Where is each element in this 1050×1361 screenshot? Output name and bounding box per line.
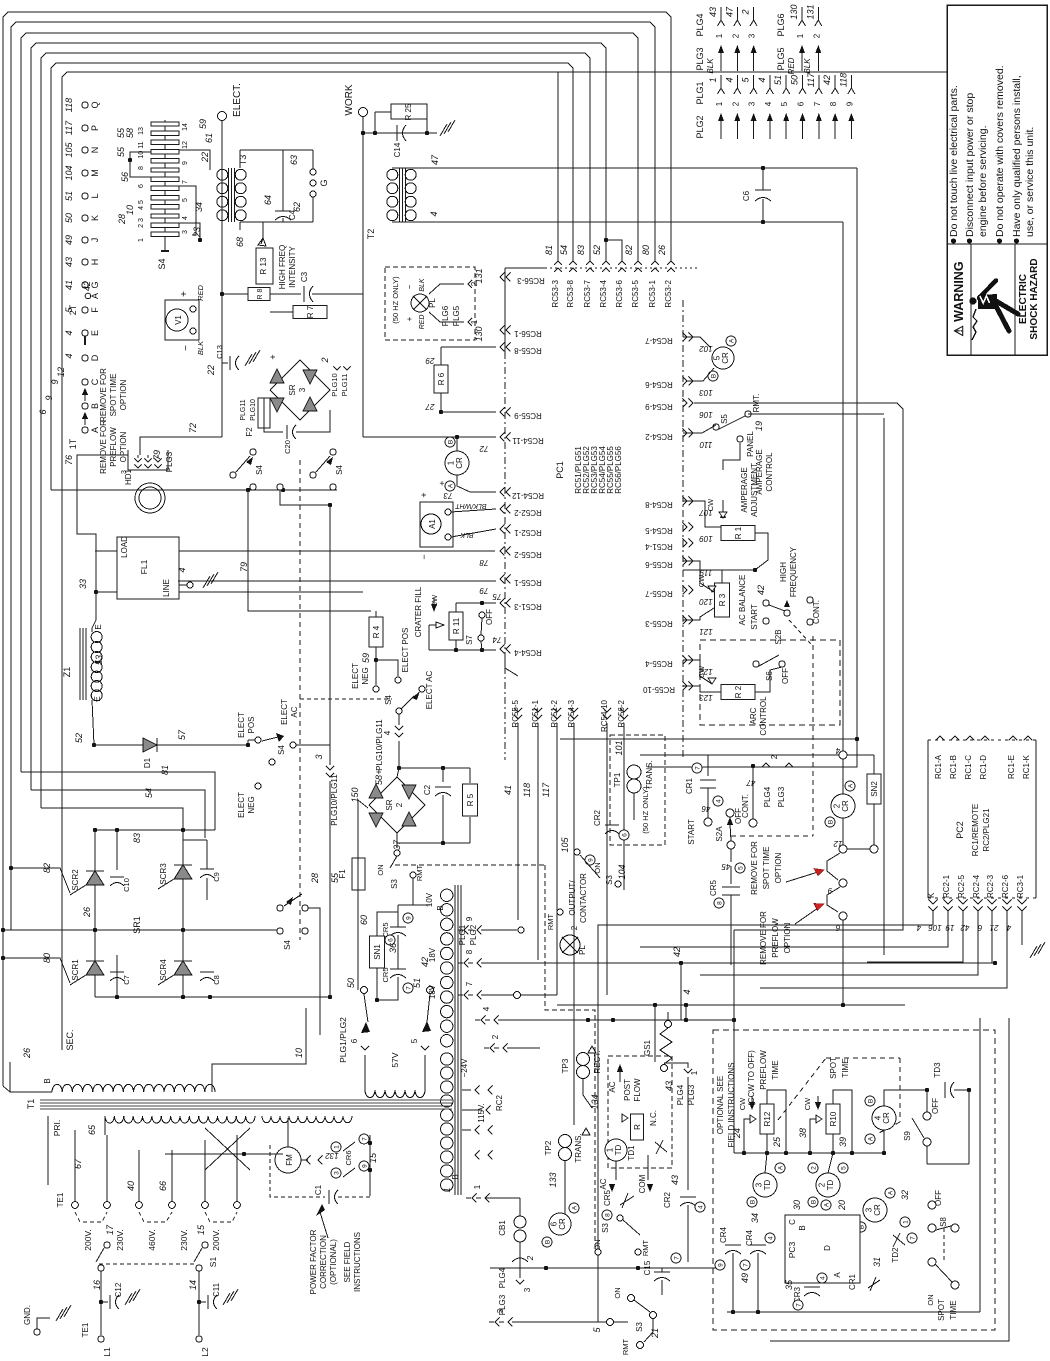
svg-text:20: 20 (837, 1200, 847, 1211)
svg-text:L1: L1 (102, 1347, 112, 1356)
svg-text:8: 8 (716, 901, 723, 905)
svg-text:3: 3 (298, 387, 307, 392)
svg-text:OFF: OFF (934, 1190, 943, 1206)
svg-text:use, or service this unit.: use, or service this unit. (1024, 127, 1036, 237)
svg-text:TE1: TE1 (56, 1192, 65, 1207)
svg-text:RC55-8: RC55-8 (514, 346, 542, 355)
svg-text:1: 1 (715, 33, 724, 38)
svg-text:47: 47 (746, 778, 755, 787)
svg-text:CR: CR (873, 1204, 882, 1216)
svg-text:118: 118 (838, 73, 848, 87)
svg-text:SCR4: SCR4 (159, 959, 168, 981)
svg-text:7: 7 (182, 180, 189, 184)
svg-text:21: 21 (990, 923, 1000, 932)
svg-text:45: 45 (721, 862, 730, 871)
svg-text:OUTPUT/: OUTPUT/ (568, 880, 577, 916)
svg-text:CR: CR (882, 1112, 891, 1124)
svg-text:RC56-1: RC56-1 (514, 329, 542, 338)
svg-text:3: 3 (748, 33, 757, 38)
svg-text:K: K (927, 892, 936, 898)
svg-text:18V: 18V (428, 984, 437, 999)
svg-text:BLK: BLK (196, 340, 205, 355)
svg-text:10 11: 10 11 (138, 141, 145, 158)
svg-text:PLG5: PLG5 (776, 47, 786, 70)
svg-text:R 25: R 25 (404, 103, 413, 120)
svg-text:T1: T1 (26, 1099, 36, 1110)
svg-text:J: J (90, 238, 100, 243)
svg-text:BLK: BLK (419, 278, 426, 292)
svg-text:(50 HZ ONLY): (50 HZ ONLY) (391, 276, 400, 324)
svg-text:CR1: CR1 (848, 1273, 857, 1290)
svg-text:E: E (93, 696, 102, 701)
svg-text:1: 1 (902, 1220, 909, 1224)
svg-text:+: + (268, 354, 278, 359)
svg-text:S2A: S2A (715, 826, 724, 842)
svg-text:⚠ WARNING: ⚠ WARNING (952, 261, 966, 336)
svg-text:83: 83 (132, 833, 142, 843)
svg-text:80: 80 (42, 953, 52, 963)
svg-text:B: B (447, 440, 454, 444)
svg-text:B: B (451, 1174, 460, 1179)
svg-text:B: B (710, 374, 717, 378)
svg-text:RC55-2: RC55-2 (514, 550, 542, 559)
svg-text:POS: POS (247, 717, 256, 734)
svg-text:CR5: CR5 (381, 967, 390, 982)
svg-text:REMOVE FOR: REMOVE FOR (750, 841, 759, 895)
svg-text:1: 1 (715, 101, 724, 106)
svg-text:72: 72 (188, 423, 198, 433)
svg-text:S3: S3 (601, 1223, 610, 1233)
svg-text:56: 56 (120, 172, 130, 182)
svg-text:66: 66 (158, 1181, 168, 1191)
svg-text:Z1: Z1 (62, 667, 72, 678)
svg-text:PLG2: PLG2 (695, 115, 705, 138)
svg-text:2: 2 (812, 33, 821, 38)
svg-text:+: + (179, 291, 190, 297)
svg-text:B: B (749, 1200, 756, 1204)
svg-text:V1: V1 (174, 315, 183, 325)
svg-text:2: 2 (320, 357, 330, 363)
svg-text:50: 50 (346, 978, 356, 988)
svg-text:PLG10/PLG11: PLG10/PLG11 (330, 774, 339, 826)
svg-text:RMT: RMT (641, 1239, 650, 1256)
svg-text:PLG5: PLG5 (452, 305, 461, 326)
svg-text:C11: C11 (212, 1282, 221, 1297)
svg-text:131: 131 (474, 268, 484, 283)
svg-text:42: 42 (756, 585, 766, 595)
svg-text:RC1-A: RC1-A (934, 754, 943, 779)
svg-text:4: 4 (383, 730, 392, 735)
svg-text:RC54-11: RC54-11 (512, 436, 544, 445)
svg-text:A: A (823, 1202, 830, 1207)
svg-text:BLK/WHT: BLK/WHT (455, 502, 487, 509)
svg-text:SR: SR (288, 384, 297, 395)
svg-text:1: 1 (605, 1147, 614, 1152)
svg-text:27: 27 (425, 402, 435, 411)
svg-text:POWER FACTOR: POWER FACTOR (309, 1229, 318, 1294)
svg-text:55: 55 (116, 127, 126, 138)
svg-text:RC51-4: RC51-4 (645, 542, 673, 551)
svg-text:SEE FIELD: SEE FIELD (343, 1241, 352, 1282)
svg-text:7: 7 (361, 1137, 368, 1141)
svg-text:S4: S4 (335, 465, 344, 475)
svg-text:PL: PL (428, 298, 437, 308)
svg-text:79: 79 (152, 450, 162, 460)
svg-text:C4: C4 (288, 209, 297, 220)
svg-text:REMOVE FOR: REMOVE FOR (759, 911, 768, 965)
svg-text:43: 43 (64, 257, 74, 267)
svg-text:PLG3: PLG3 (165, 451, 174, 472)
svg-text:+: + (374, 769, 384, 774)
svg-text:RC2-4: RC2-4 (972, 874, 981, 898)
svg-text:+: + (405, 316, 414, 321)
svg-text:Disconnect input power or stop: Disconnect input power or stop (964, 93, 976, 237)
svg-text:C15: C15 (643, 1260, 652, 1275)
svg-text:A: A (867, 1136, 874, 1141)
svg-text:S4: S4 (255, 465, 264, 475)
svg-text:OPTIONAL SEE: OPTIONAL SEE (716, 1076, 725, 1134)
svg-text:CR: CR (558, 1218, 567, 1230)
svg-text:TIME: TIME (771, 1060, 780, 1079)
svg-text:RC1-C: RC1-C (964, 755, 973, 780)
svg-text:A: A (833, 1272, 842, 1278)
svg-text:RC54-3: RC54-3 (567, 699, 576, 727)
svg-text:49: 49 (64, 235, 74, 245)
svg-text:120: 120 (699, 597, 713, 606)
svg-text:RC53-8: RC53-8 (566, 279, 575, 307)
svg-text:6: 6 (797, 101, 806, 106)
svg-text:RED: RED (787, 57, 796, 74)
svg-text:B: B (436, 905, 445, 910)
svg-text:2: 2 (770, 754, 779, 759)
svg-text:B: B (798, 1225, 807, 1230)
svg-text:C6: C6 (742, 190, 751, 201)
svg-text:S7: S7 (465, 635, 474, 645)
svg-text:4: 4 (715, 799, 722, 803)
svg-text:42: 42 (82, 281, 92, 291)
svg-text:C: C (788, 1219, 797, 1225)
svg-text:S3: S3 (635, 1322, 644, 1332)
svg-text:42: 42 (420, 957, 430, 967)
svg-text:RC55-5: RC55-5 (511, 699, 520, 727)
svg-text:B: B (544, 1240, 551, 1244)
svg-text:R 3: R 3 (718, 593, 727, 606)
svg-text:72: 72 (479, 444, 488, 453)
svg-text:3: 3 (748, 101, 757, 106)
svg-text:4: 4 (64, 353, 74, 358)
svg-text:NEG: NEG (247, 796, 256, 813)
svg-text:REMOVE FOR: REMOVE FOR (99, 368, 108, 422)
svg-text:CRATER FILL: CRATER FILL (414, 586, 423, 637)
svg-text:7: 7 (813, 101, 822, 106)
svg-text:105: 105 (64, 142, 74, 158)
svg-text:51: 51 (64, 191, 74, 201)
svg-text:S5: S5 (720, 414, 729, 424)
svg-text:10: 10 (125, 205, 135, 215)
svg-text:S4: S4 (277, 745, 286, 755)
svg-text:CR: CR (721, 352, 730, 364)
svg-text:RC54-8: RC54-8 (645, 500, 673, 509)
svg-text:76: 76 (64, 455, 74, 465)
svg-text:RC56/PLG56: RC56/PLG56 (614, 446, 623, 494)
svg-text:5: 5 (840, 1166, 847, 1170)
svg-text:OPTION: OPTION (119, 431, 128, 462)
svg-text:LOAD: LOAD (120, 536, 129, 558)
svg-text:7: 7 (465, 981, 474, 986)
svg-text:PLG4: PLG4 (498, 1267, 507, 1288)
svg-text:103: 103 (699, 388, 713, 397)
svg-text:25: 25 (772, 1136, 782, 1148)
svg-text:PANEL: PANEL (746, 431, 755, 457)
svg-text:4 5: 4 5 (138, 200, 145, 210)
svg-text:4: 4 (764, 101, 773, 106)
svg-text:RC1/REMOTE: RC1/REMOTE (971, 804, 980, 856)
svg-text:75: 75 (492, 592, 501, 601)
svg-text:110: 110 (699, 440, 712, 449)
svg-text:26: 26 (657, 245, 667, 256)
svg-text:41: 41 (503, 785, 513, 795)
svg-text:R 6: R 6 (437, 372, 446, 385)
svg-text:M: M (90, 169, 100, 177)
svg-text:1: 1 (138, 238, 145, 242)
svg-text:RC55-7: RC55-7 (645, 589, 673, 598)
svg-text:RC52-2: RC52-2 (514, 508, 542, 517)
svg-text:RC54-2: RC54-2 (645, 432, 673, 441)
svg-text:46: 46 (701, 804, 710, 813)
svg-text:R12: R12 (763, 1111, 772, 1126)
svg-text:40: 40 (126, 1181, 136, 1191)
svg-text:ELECT AC: ELECT AC (425, 671, 434, 710)
svg-text:COM: COM (638, 1174, 647, 1193)
svg-text:RC54-7: RC54-7 (645, 336, 673, 345)
svg-text:A: A (847, 783, 854, 788)
svg-text:130: 130 (474, 326, 484, 341)
svg-text:24: 24 (732, 1128, 742, 1139)
svg-text:L2: L2 (200, 1347, 210, 1356)
svg-text:INSTRUCTIONS: INSTRUCTIONS (353, 1232, 362, 1292)
svg-text:START: START (687, 819, 696, 845)
svg-text:TD3: TD3 (933, 1062, 942, 1078)
svg-text:PLG6: PLG6 (776, 13, 786, 36)
svg-text:RC55-4: RC55-4 (645, 659, 673, 668)
svg-text:PLG1/PLG2: PLG1/PLG2 (338, 1017, 348, 1063)
svg-text:SPOT: SPOT (937, 1299, 946, 1321)
svg-text:9: 9 (465, 916, 474, 921)
svg-text:C13: C13 (215, 345, 224, 359)
svg-text:RC1-D: RC1-D (979, 755, 988, 780)
svg-text:TD: TD (763, 1179, 772, 1190)
svg-text:6: 6 (835, 923, 840, 932)
svg-text:7: 7 (795, 1303, 802, 1307)
svg-text:9: 9 (587, 858, 594, 862)
svg-text:RC55-9: RC55-9 (514, 411, 542, 420)
svg-text:RECT.: RECT. (593, 1050, 602, 1073)
svg-text:12: 12 (182, 141, 189, 149)
svg-text:5: 5 (410, 1038, 419, 1043)
svg-text:230V.: 230V. (115, 1229, 125, 1250)
svg-text:Do not operate with covers rem: Do not operate with covers removed. (994, 65, 1006, 237)
svg-text:59: 59 (361, 653, 371, 663)
svg-text:4: 4 (819, 1276, 826, 1280)
svg-text:2 3: 2 3 (138, 218, 145, 228)
svg-text:OPTION: OPTION (119, 379, 128, 410)
svg-text:3: 3 (523, 1287, 532, 1292)
svg-text:PREFLOW: PREFLOW (109, 427, 118, 467)
svg-text:43: 43 (664, 1081, 674, 1091)
svg-text:8: 8 (138, 166, 145, 170)
svg-text:50: 50 (790, 75, 800, 85)
svg-text:FLOW: FLOW (633, 1078, 642, 1102)
svg-text:ADJUSTMENT: ADJUSTMENT (750, 463, 759, 517)
svg-text:A: A (571, 1205, 578, 1210)
svg-text:123: 123 (699, 693, 713, 702)
svg-text:BLK: BLK (803, 58, 812, 74)
svg-text:200V.: 200V. (83, 1229, 93, 1250)
svg-text:1: 1 (442, 1187, 452, 1192)
svg-text:1: 1 (446, 460, 455, 465)
svg-text:RC54-9: RC54-9 (645, 402, 673, 411)
svg-text:CR1: CR1 (685, 777, 694, 794)
svg-text:RC55-3: RC55-3 (645, 619, 673, 628)
svg-text:43: 43 (670, 1175, 680, 1185)
svg-text:K: K (90, 215, 100, 221)
svg-text:OFF: OFF (931, 1098, 940, 1114)
svg-text:4: 4 (429, 211, 439, 216)
svg-text:T2: T2 (366, 229, 376, 240)
svg-text:CONTROL: CONTROL (759, 696, 768, 736)
svg-text:52: 52 (74, 733, 84, 743)
svg-text:82: 82 (42, 863, 52, 873)
svg-text:5: 5 (737, 866, 744, 870)
svg-text:PLG3: PLG3 (777, 786, 786, 807)
svg-text:POST: POST (623, 1079, 632, 1101)
svg-text:4: 4 (724, 77, 734, 82)
svg-text:26: 26 (82, 907, 92, 918)
svg-text:F1: F1 (338, 869, 347, 879)
svg-text:S1: S1 (208, 1257, 218, 1268)
svg-text:F: F (90, 307, 100, 313)
svg-text:74: 74 (492, 635, 501, 644)
svg-text:CR6: CR6 (344, 1150, 353, 1165)
svg-text:81: 81 (160, 765, 170, 775)
svg-text:2: 2 (810, 1166, 817, 1170)
svg-text:HD1: HD1 (124, 468, 133, 485)
svg-text:AC: AC (608, 1081, 617, 1092)
svg-text:49: 49 (740, 1273, 750, 1283)
svg-text:RC54-10: RC54-10 (600, 699, 609, 732)
svg-text:4: 4 (682, 989, 692, 994)
svg-text:CR: CR (455, 457, 464, 469)
svg-text:AMPERAGE: AMPERAGE (740, 467, 749, 512)
svg-text:9: 9 (361, 1164, 368, 1168)
svg-text:39: 39 (838, 1137, 848, 1147)
svg-text:ELECT POS: ELECT POS (401, 628, 410, 673)
svg-text:53: 53 (94, 655, 104, 665)
svg-text:10: 10 (294, 1048, 304, 1058)
svg-text:CONTROL: CONTROL (765, 452, 774, 492)
svg-text:CR2: CR2 (593, 809, 602, 826)
svg-text:13: 13 (138, 127, 145, 135)
svg-text:54: 54 (144, 788, 154, 798)
svg-text:37: 37 (392, 839, 402, 850)
svg-text:133: 133 (548, 1172, 558, 1187)
svg-text:C12: C12 (114, 1282, 123, 1297)
svg-text:PLG4: PLG4 (676, 1084, 685, 1105)
svg-text:AC: AC (599, 1178, 608, 1189)
svg-text:118: 118 (64, 98, 74, 112)
svg-text:R: R (633, 1124, 642, 1130)
svg-text:8: 8 (829, 101, 838, 106)
svg-text:6: 6 (387, 938, 394, 942)
svg-text:CW: CW (738, 1097, 747, 1110)
svg-text:RC53-4: RC53-4 (599, 279, 608, 307)
svg-text:H: H (90, 259, 100, 266)
svg-text:FL1: FL1 (139, 559, 149, 574)
svg-text:PLG11: PLG11 (340, 374, 349, 397)
svg-text:Do not touch live electrical p: Do not touch live electrical parts. (948, 85, 960, 237)
svg-text:CONT.: CONT. (812, 600, 821, 624)
svg-text:101: 101 (614, 740, 624, 755)
svg-text:C3: C3 (300, 271, 309, 282)
svg-text:4: 4 (177, 567, 187, 572)
svg-text:2: 2 (395, 802, 404, 807)
svg-text:4: 4 (757, 77, 767, 82)
svg-text:80: 80 (641, 245, 651, 255)
svg-text:R 13: R 13 (259, 257, 268, 274)
svg-text:LINE: LINE (162, 579, 171, 597)
svg-text:5: 5 (182, 198, 189, 202)
svg-text:52: 52 (592, 245, 602, 255)
svg-text:2T: 2T (68, 304, 78, 315)
svg-text:A: A (90, 293, 100, 299)
svg-text:RC53-7: RC53-7 (583, 279, 592, 307)
svg-text:D: D (90, 354, 100, 361)
svg-text:PLG2: PLG2 (469, 924, 478, 945)
svg-text:55: 55 (116, 146, 126, 157)
svg-text:PL: PL (578, 945, 587, 955)
svg-text:RC51-2: RC51-2 (550, 699, 559, 727)
svg-text:9: 9 (50, 379, 60, 384)
svg-text:−24V: −24V (460, 1058, 469, 1078)
svg-text:131: 131 (805, 4, 815, 19)
svg-text:PREFLOW: PREFLOW (759, 1050, 768, 1090)
svg-text:1: 1 (473, 1184, 482, 1189)
svg-text:A1: A1 (428, 519, 437, 529)
svg-text:TRANS.: TRANS. (645, 760, 654, 789)
svg-text:200V.: 200V. (211, 1229, 221, 1250)
svg-text:C14: C14 (393, 142, 402, 157)
svg-text:109: 109 (699, 534, 713, 543)
svg-text:2: 2 (741, 9, 751, 15)
svg-text:R10: R10 (829, 1111, 838, 1126)
svg-text:−: − (405, 284, 414, 289)
svg-text:2: 2 (526, 1255, 535, 1261)
svg-text:460V.: 460V. (147, 1229, 157, 1250)
svg-text:B: B (43, 1078, 52, 1083)
svg-text:9: 9 (717, 1263, 724, 1267)
svg-text:CORRECTION: CORRECTION (319, 1235, 328, 1289)
svg-text:R 2: R 2 (734, 685, 743, 698)
svg-text:RC2: RC2 (495, 1094, 504, 1111)
svg-text:106: 106 (699, 410, 713, 419)
svg-text:ELECT: ELECT (351, 663, 360, 689)
svg-text:ELECT: ELECT (237, 792, 246, 818)
svg-text:CONTACTOR: CONTACTOR (579, 873, 588, 923)
svg-text:105: 105 (560, 837, 570, 853)
svg-text:6: 6 (549, 1221, 558, 1226)
svg-text:1: 1 (470, 319, 479, 324)
svg-text:61: 61 (204, 133, 214, 143)
